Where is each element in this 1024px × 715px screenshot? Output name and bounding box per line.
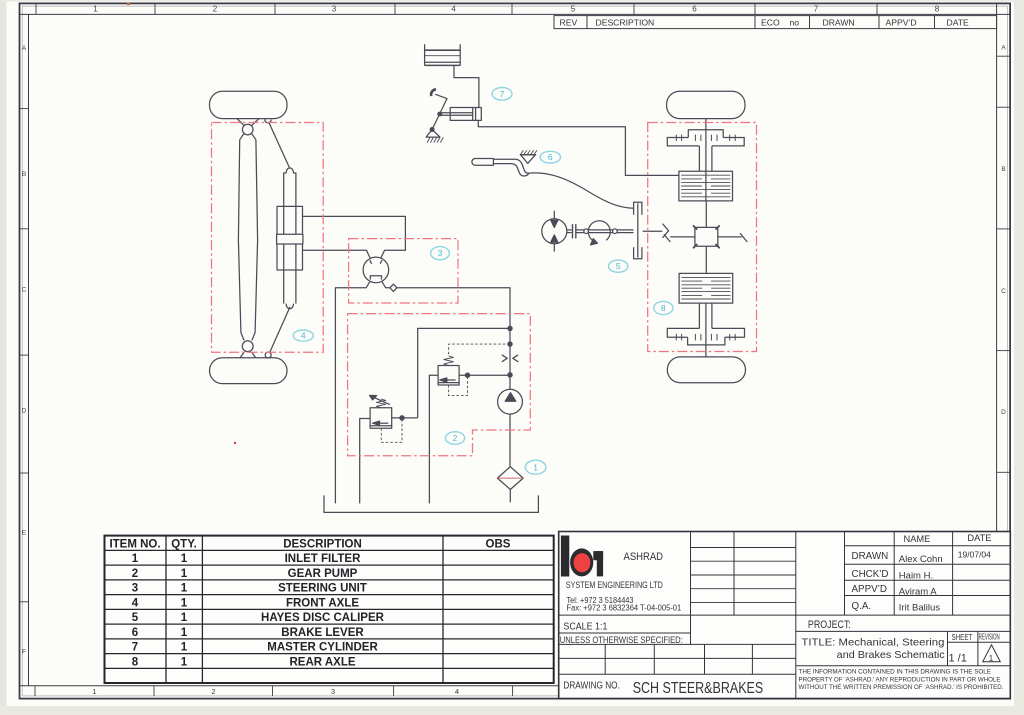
svg-text:UNLESS OTHERWISE SPECIFIED:: UNLESS OTHERWISE SPECIFIED: [560,635,683,645]
svg-text:D: D [1001,409,1006,416]
brake cable lever to caliper [529,173,634,208]
svg-text:DATE: DATE [947,17,970,27]
svg-text:Haim H.: Haim H. [899,570,933,581]
svg-text:SCH STEER&BRAKES: SCH STEER&BRAKES [633,680,764,697]
svg-text:1: 1 [93,5,98,14]
relief valve V2 spring with adjust arrow [376,399,385,408]
svg-text:WITHOUT THE WRITTEN PREMISSION: WITHOUT THE WRITTEN PREMISSION OF ’ASHRA… [799,684,1004,691]
steering unit U3 [363,257,389,283]
left band letters [22,45,27,656]
svg-text:Alex Cohn: Alex Cohn [899,554,943,565]
pilot dashed line to V1 spring [449,344,510,356]
svg-text:5: 5 [571,5,576,14]
svg-text:MASTER CYLINDER: MASTER CYLINDER [267,642,378,654]
wire V1 left port to tank [429,375,438,503]
oil tank [324,495,538,512]
svg-text:5: 5 [616,261,621,271]
wet disc brake stack bottom [679,273,733,303]
axle shaft stack to differential [705,201,707,228]
svg-text:QTY.: QTY. [171,539,197,551]
reservoir (brake fluid tank) [425,44,461,65]
gear pump P1 [498,389,523,414]
brake lever pivot mount [520,154,536,156]
svg-text:B: B [22,171,26,178]
svg-text:4: 4 [455,687,459,696]
tie rod bottom [270,307,291,353]
left band dividers [20,109,29,602]
svg-text:D: D [22,408,27,415]
svg-text:1: 1 [181,656,188,668]
svg-text:Aviram A: Aviram A [899,586,938,597]
balloon label 2 [445,432,464,445]
svg-text:SYSTEM ENGINEERING LTD: SYSTEM ENGINEERING LTD [566,580,663,591]
gear mesh ticks bottom [676,334,735,341]
balloon label 7 [492,88,512,101]
brake lever arm [493,159,528,173]
check valve diamond node [390,284,397,291]
svg-text:SCALE 1:1: SCALE 1:1 [563,621,607,633]
rear axle center shaft bottom [705,303,707,357]
svg-text:8: 8 [661,303,666,313]
revision header table top right [554,16,997,29]
svg-text:A: A [1001,45,1006,52]
scan speck top [127,3,130,5]
svg-text:INLET FILTER: INLET FILTER [285,553,362,565]
drain dashed loop V1 [449,375,468,395]
brake disc and caliper D5 [634,202,642,259]
svg-text:DRAWING NO.: DRAWING NO. [563,679,620,691]
svg-text:1: 1 [533,462,538,472]
disclaimer text [799,669,1004,692]
svg-text:1: 1 [181,627,188,639]
gear mesh ticks top [676,135,735,141]
svg-text:and Brakes Schematic: and Brakes Schematic [837,649,945,661]
steering cylinder body [277,206,303,270]
front axle body [238,140,241,333]
svg-text:1: 1 [132,553,139,565]
right band letters [1001,45,1006,417]
svg-text:DRAWN: DRAWN [823,17,855,27]
svg-text:19/07/04: 19/07/04 [958,550,991,560]
svg-text:1: 1 [181,597,188,609]
drain dashed loop V2 [381,418,402,442]
wire V2 right port [392,417,418,419]
svg-text:8: 8 [935,5,940,14]
svg-text:A: A [22,45,27,52]
svg-text:CHCK’D: CHCK’D [852,569,889,580]
svg-text:1: 1 [989,654,994,663]
balloon label 3 [431,247,450,260]
svg-text:ASHRAD: ASHRAD [624,551,664,563]
svg-text:ITEM NO.: ITEM NO. [109,539,160,551]
svg-text:PROJECT:: PROJECT: [808,619,851,631]
front knuckle joint top [242,124,253,135]
wire cylinder top port to steering unit [303,216,406,258]
wire pump to filter [509,414,511,467]
balloon label 4 [293,330,313,341]
svg-text:APPV’D: APPV’D [886,17,917,27]
svg-text:GEAR PUMP: GEAR PUMP [288,568,358,580]
rear axle boundary box 8 [648,123,757,352]
junction dot D [465,373,469,377]
svg-text:1: 1 [92,687,96,696]
front tire top [210,91,288,118]
title block [559,532,1011,699]
right output shaft with joint tick [718,236,742,238]
svg-text:REVISION: REVISION [979,633,1000,642]
svg-text:OBS: OBS [486,539,511,551]
svg-text:HAYES DISC CALIPER: HAYES DISC CALIPER [261,612,385,624]
frame band lines [20,13,1010,15]
rear tire top [667,91,745,118]
inlet filter F1 [497,467,523,490]
ASHRAD logo [561,536,603,577]
balloon label 8 [654,301,673,314]
title block horizontals [559,614,1011,616]
universal joint chevron [663,224,669,238]
balloon label 5 [609,260,628,272]
svg-text:2: 2 [453,433,458,443]
scan speck mid [234,442,236,444]
svg-text:DATE: DATE [967,533,991,543]
junction dot E [400,416,404,420]
svg-text:Fax: +972 3 6832364 T-04-005-: Fax: +972 3 6832364 T-04-005-01 [567,603,682,612]
svg-text:2: 2 [213,5,218,14]
svg-text:4: 4 [132,597,139,609]
svg-text:7: 7 [500,89,505,99]
svg-text:DESCRIPTION: DESCRIPTION [596,17,655,27]
svg-text:STEERING UNIT: STEERING UNIT [278,583,367,595]
wire steering unit return to tank [335,282,369,504]
rear axle center shaft top [705,119,707,201]
svg-text:SHEET: SHEET [952,632,973,642]
revision triangle [983,645,1001,662]
svg-text:TITLE: Mechanical, Steering: TITLE: Mechanical, Steering [801,637,944,649]
wet disc brake stack top [679,171,733,201]
rear final drive hub bottom [667,303,744,345]
svg-text:6: 6 [692,5,697,14]
front tire bottom [210,358,288,384]
svg-text:3: 3 [332,5,337,14]
top ruler numbers [93,5,940,14]
svg-text:1: 1 [181,642,188,654]
relief valve V1 body [438,366,459,386]
svg-text:no: no [790,17,800,27]
svg-text:F: F [22,649,26,656]
svg-text:PROPERTY OF ’ASHRAD.’ ANY REPR: PROPERTY OF ’ASHRAD.’ ANY REPRODUCTION I… [799,676,1001,683]
svg-text:1 /1: 1 /1 [949,653,967,665]
svg-text:C: C [22,287,27,294]
wire reservoir to master cylinder [454,66,479,108]
wire steering unit inlet from check valve [382,282,390,288]
svg-text:7: 7 [132,642,138,654]
approval table texts [801,533,999,665]
hydraulic drive motor [542,211,567,252]
svg-text:DRAWN: DRAWN [852,551,889,562]
svg-text:APPV’D: APPV’D [852,584,887,595]
svg-text:2: 2 [211,687,215,696]
wire filter to tank [509,490,511,503]
svg-text:2: 2 [132,568,138,580]
right band dividers [997,56,1010,472]
svg-text:1: 1 [181,568,188,580]
steering unit boundary box 3 [349,239,458,303]
svg-text:1: 1 [181,553,188,565]
parts list table [105,536,554,683]
svg-text:4: 4 [451,5,456,14]
svg-text:NAME: NAME [904,534,931,544]
wire V2 left port to tank [360,419,370,504]
svg-text:ECO: ECO [761,17,780,27]
svg-text:DESCRIPTION: DESCRIPTION [283,539,362,551]
flow chevrons on pressure line [502,355,507,362]
svg-text:3: 3 [331,687,335,696]
wire V1 right port to pressure line [459,374,510,376]
steering cylinder piston band [277,234,303,244]
svg-text:BRAKE LEVER: BRAKE LEVER [281,627,364,639]
relief valve V2 body [370,408,392,429]
title block verticals [690,532,692,645]
top ruler tick dividers [36,3,877,14]
svg-text:THE INFORMATION CONTAINED IN T: THE INFORMATION CONTAINED IN THIS DRAWIN… [799,669,992,676]
rear tire bottom [667,357,745,383]
hydraulic unit boundary box 2 [348,314,531,456]
svg-text:Irit Balilus: Irit Balilus [899,602,940,613]
bottom ruler tick dividers [35,686,513,696]
svg-text:7: 7 [814,5,819,14]
bottom ruler numbers [92,687,459,696]
svg-text:4: 4 [301,331,306,341]
svg-text:1: 1 [181,612,188,624]
svg-text:5: 5 [132,612,139,624]
svg-text:REAR AXLE: REAR AXLE [289,656,355,668]
steering cylinder rod [284,168,296,304]
svg-text:C: C [1001,288,1006,295]
svg-text:E: E [22,530,27,537]
svg-text:REV: REV [560,18,578,28]
drive shaft with coupling [567,224,634,238]
rotation arrow on shaft [588,221,610,242]
junction dot C [508,373,512,377]
balloon label 6 [540,151,560,163]
shaft joint to differential [670,236,695,238]
relief valve V1 spring [444,356,454,366]
brake pedal of master cylinder [426,89,447,142]
svg-text:Q.A.: Q.A. [852,601,872,612]
svg-text:B: B [1001,166,1005,173]
svg-text:8: 8 [132,656,139,668]
wire diamond to pump pressure line [397,288,510,389]
wire cylinder bottom port to steering unit [303,250,371,258]
ball joint bottom [265,352,271,358]
junction dot A [508,326,512,330]
ball joint top [265,119,271,123]
front knuckle joint bottom [242,341,253,352]
svg-text:1: 1 [181,583,188,595]
svg-text:6: 6 [548,152,553,162]
shaft disc to joint [643,230,663,232]
differential gearbox [693,225,720,248]
tie rod top [269,122,290,168]
rear final drive hub top [667,130,744,171]
company texts [560,551,763,697]
wire branch to relief valve V1 [418,328,510,418]
master cylinder U7 body [440,108,481,121]
svg-text:FRONT AXLE: FRONT AXLE [286,597,359,609]
balloon label 1 [525,460,546,474]
junction dot B [508,342,512,346]
wire master cylinder to rear brake stack [478,120,679,175]
front axle boundary box 4 [212,123,324,353]
svg-text:3: 3 [438,248,443,258]
svg-text:6: 6 [132,627,138,639]
brake lever L6 grip [472,159,494,166]
svg-text:3: 3 [132,583,138,595]
